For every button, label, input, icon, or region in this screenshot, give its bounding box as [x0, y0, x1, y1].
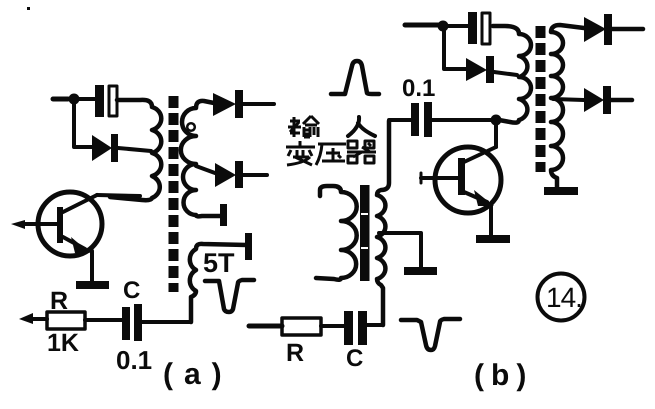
svg-text:0.1: 0.1	[402, 75, 435, 102]
wire C1 to transformer T1 bottom	[142, 320, 191, 324]
wire node B down to collector Q2	[494, 125, 498, 147]
capacitor C1 0.1 circuit a	[122, 304, 142, 341]
wire node C down to diode D4	[444, 31, 466, 69]
label 输	[288, 116, 319, 137]
waveform negative pulse (circuit a)	[205, 280, 254, 312]
figure number 14	[538, 274, 585, 321]
speck top-left	[27, 7, 30, 10]
wire node A down to diode D1	[74, 104, 92, 147]
node A (input node circuit a)	[69, 94, 80, 105]
transformer T2 primary winding	[493, 26, 531, 123]
transformer T3 input transformer left winding	[316, 186, 357, 280]
ground (T2 secondary)	[544, 187, 578, 195]
capacitor C3 circuit b	[344, 311, 367, 345]
wire node A to capacitor Ca	[79, 97, 95, 101]
node B (collector node circuit b)	[491, 115, 502, 126]
svg-text:5T: 5T	[203, 248, 235, 278]
transistor Q2	[421, 147, 501, 213]
wire input stub circuit a	[53, 97, 68, 102]
svg-text:0.1: 0.1	[116, 345, 152, 375]
ground (emitter Q2)	[476, 204, 510, 243]
diode D3 (output mid circuit a)	[215, 161, 267, 188]
waveform positive pulse (input circuit b)	[331, 61, 379, 94]
svg-text:(b): (b)	[474, 359, 533, 392]
wire C3 to transformer T3	[367, 323, 383, 327]
wire T2 tap to diode D6	[553, 99, 584, 100]
svg-text:C: C	[346, 345, 363, 372]
capacitor Cb (feedback cap circuit b)	[448, 12, 490, 44]
transformer T3 core	[360, 185, 370, 281]
waveform negative pulse (circuit b)	[401, 319, 460, 350]
transformer T3 right winding	[377, 121, 389, 325]
transformer T2 secondary winding	[551, 25, 584, 187]
wire collector Q1 to transformer T1 primary	[97, 195, 140, 196]
svg-text:R: R	[50, 287, 68, 315]
terminal bar (5T tap circuit a)	[245, 233, 252, 260]
resistor R2 input circuit b	[249, 318, 345, 335]
diode D4 (feedback diode circuit b)	[466, 56, 517, 83]
svg-text:(a): (a)	[163, 358, 233, 391]
ground (emitter Q1)	[76, 251, 109, 289]
svg-text:C: C	[123, 277, 140, 304]
resistor R1 input circuit a	[19, 312, 122, 329]
wire C2 left to transformer T3	[389, 120, 411, 183]
label 变	[286, 141, 315, 165]
label 入	[348, 117, 375, 136]
diode D5 (output top circuit b)	[584, 14, 643, 45]
svg-text:1K: 1K	[47, 329, 79, 357]
diode D1 (feedback diode circuit a)	[92, 134, 151, 162]
transformer T1 primary winding	[110, 100, 161, 200]
diode D6 (output mid circuit b)	[584, 86, 632, 114]
terminal bar (upper tap circuit a)	[220, 204, 227, 226]
diode D2 (output top circuit a)	[213, 90, 274, 118]
svg-text:R: R	[286, 339, 304, 367]
transistor Q1	[11, 192, 102, 256]
transformer T1 core	[169, 96, 179, 292]
wire input stub top circuit b	[405, 23, 440, 28]
svg-text:14.: 14.	[546, 282, 582, 313]
transformer T2 core	[536, 26, 546, 172]
transformer T1 secondary winding (upper)	[181, 101, 222, 216]
node C (top node circuit b)	[438, 21, 449, 32]
capacitor Ca (feedback cap circuit a)	[95, 85, 117, 117]
wire T1 tap to diode D3	[196, 166, 215, 173]
label 器	[347, 141, 376, 163]
transformer T1 5T winding	[190, 244, 247, 322]
ground (T3 tap circuit b)	[404, 267, 437, 275]
label 压	[316, 144, 346, 165]
wire C2 right to node B	[432, 118, 496, 122]
wire T3 tap to ground	[379, 233, 421, 267]
winding polarity dot T1	[187, 123, 195, 131]
capacitor C2 0.1 input circuit b	[411, 102, 432, 137]
